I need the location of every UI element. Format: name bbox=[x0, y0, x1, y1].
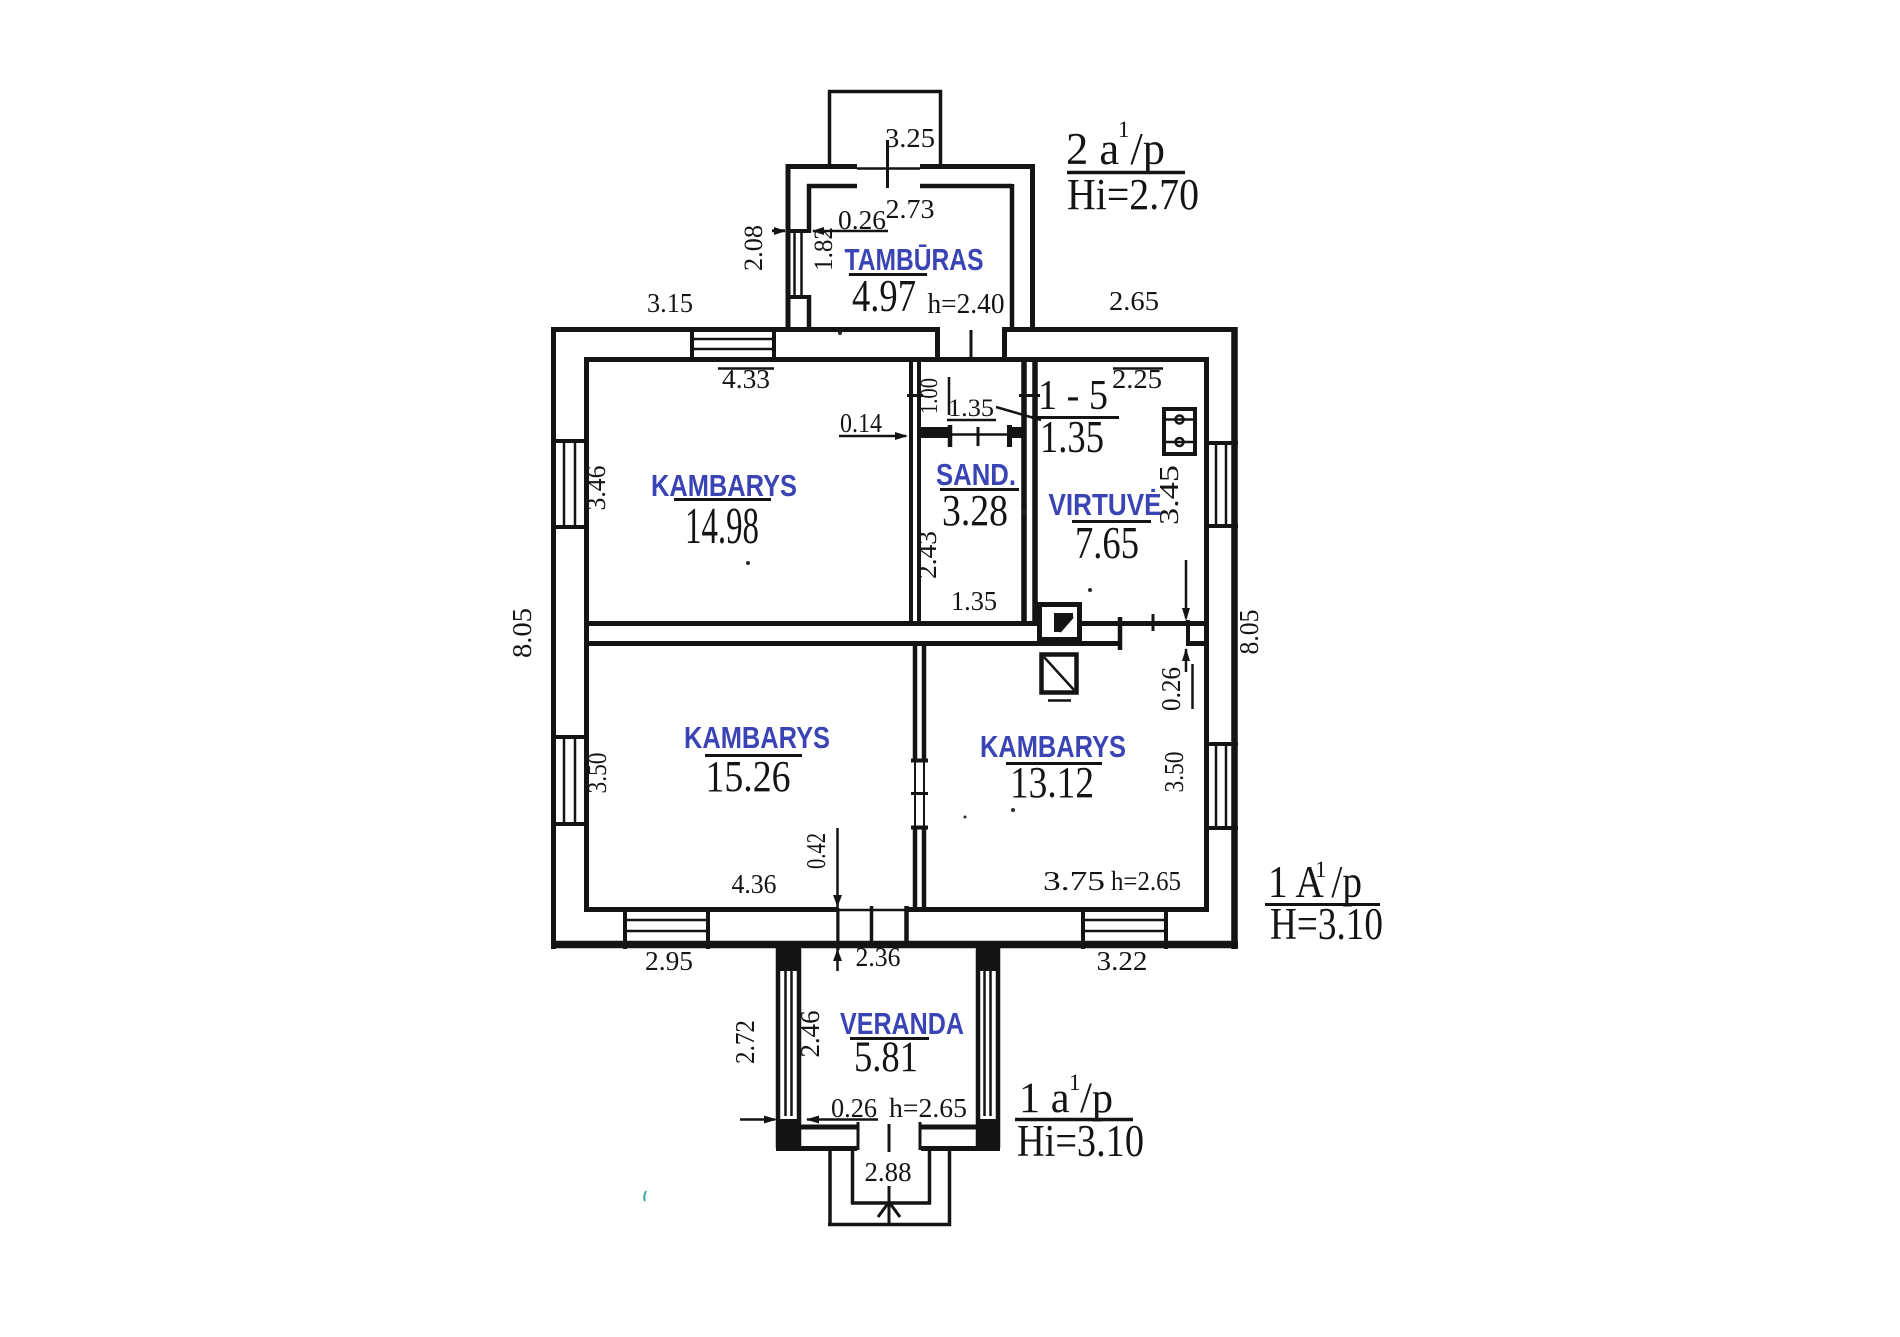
porch right wall bbox=[939, 90, 943, 164]
ventilation square room3 bbox=[1042, 655, 1077, 701]
svg-text:2.36: 2.36 bbox=[856, 942, 901, 972]
veranda bottom wall outer bbox=[776, 1146, 857, 1151]
PARTITION room2 | room3 (lower vertical) bbox=[913, 641, 918, 760]
underline 1.35 lobby + leader bbox=[947, 419, 996, 422]
svg-text:4.36: 4.36 bbox=[732, 869, 777, 899]
window W3 left wall lower bbox=[551, 735, 589, 739]
svg-text:1: 1 bbox=[1069, 1070, 1081, 1095]
veranda corner blocks bbox=[776, 944, 801, 971]
svg-text:1 a /p: 1 a /p bbox=[1019, 1075, 1113, 1122]
fraction line 1a/p bbox=[1015, 1118, 1133, 1122]
partition bottom line bbox=[586, 641, 1120, 646]
svg-text:3.50: 3.50 bbox=[1159, 752, 1189, 793]
veranda left wall outer bbox=[776, 943, 781, 1148]
svg-text:2.25: 2.25 bbox=[1112, 364, 1162, 394]
wall inner bottom left of door bbox=[584, 907, 838, 912]
SAND top wall with door bbox=[919, 427, 951, 438]
svg-text:7.65: 7.65 bbox=[1075, 518, 1139, 568]
svg-text:2.46: 2.46 bbox=[795, 1011, 825, 1058]
svg-text:h=2.40: h=2.40 bbox=[928, 289, 1005, 320]
STEPS bbox=[828, 1151, 832, 1226]
tick on upper partition bbox=[907, 394, 923, 397]
tambour inner right wall bbox=[1010, 184, 1015, 329]
svg-text:3.28: 3.28 bbox=[942, 486, 1008, 535]
window W6 bottom wall left bbox=[623, 908, 627, 949]
svg-text:4.33: 4.33 bbox=[722, 364, 770, 394]
svg-text:3.75: 3.75 bbox=[1043, 866, 1105, 896]
veranda door tick bbox=[888, 1124, 891, 1152]
sand door tick bbox=[977, 427, 980, 446]
fraction line 1A/p bbox=[1265, 903, 1380, 906]
porch top wall bbox=[828, 90, 942, 94]
veranda right wall outer bbox=[996, 943, 1001, 1148]
tambour outer top right segment bbox=[920, 164, 1035, 169]
overlines of small dims bbox=[718, 367, 774, 370]
wall outer left bbox=[551, 327, 556, 949]
window W7 bottom wall right bbox=[1081, 908, 1085, 949]
svg-text:3.25: 3.25 bbox=[885, 123, 935, 153]
svg-text:h=2.65: h=2.65 bbox=[889, 1093, 967, 1123]
entry arrow line bbox=[888, 1186, 891, 1224]
window W5 right wall lower bbox=[1204, 742, 1238, 746]
svg-text:VIRTUVĖ: VIRTUVĖ bbox=[1049, 487, 1162, 522]
svg-text:15.26: 15.26 bbox=[706, 752, 791, 801]
svg-text:3.22: 3.22 bbox=[1097, 946, 1148, 976]
svg-text:Hi=2.70: Hi=2.70 bbox=[1067, 170, 1199, 219]
dim 0.42 line bbox=[836, 828, 839, 971]
svg-text:3.50: 3.50 bbox=[582, 753, 612, 794]
svg-text:0.26: 0.26 bbox=[838, 205, 886, 235]
dim 0.14 arrow bbox=[839, 435, 906, 438]
svg-text:1.35: 1.35 bbox=[948, 395, 994, 422]
entry arrow head bbox=[878, 1202, 900, 1217]
svg-text:2.72: 2.72 bbox=[730, 1020, 760, 1064]
veranda bottom wall inner bbox=[797, 1125, 857, 1130]
wall outer right bbox=[1231, 327, 1238, 949]
svg-text:4.97: 4.97 bbox=[852, 271, 916, 321]
svg-text:2.08: 2.08 bbox=[739, 225, 768, 271]
dim 2.08 arrow bbox=[772, 229, 785, 232]
svg-text:0.26: 0.26 bbox=[1156, 667, 1186, 711]
window W8 tambour left wall bbox=[786, 229, 811, 233]
door threshold thin line bbox=[838, 909, 906, 912]
svg-text:H=3.10: H=3.10 bbox=[1270, 899, 1383, 949]
svg-text:Hi=3.10: Hi=3.10 bbox=[1017, 1116, 1144, 1166]
wall outer bottom bbox=[551, 941, 1238, 949]
svg-text:3.45: 3.45 bbox=[1154, 465, 1184, 525]
fraction line 2a/p bbox=[1067, 171, 1185, 175]
window W10 veranda right bbox=[983, 971, 986, 1116]
window W2 left wall upper bbox=[551, 439, 589, 443]
sand door jamb T right bbox=[1007, 425, 1012, 447]
svg-text:0.26: 0.26 bbox=[831, 1093, 877, 1123]
tambour inner left wall bbox=[807, 184, 812, 233]
wire bbox=[1003, 327, 1236, 332]
tambour door threshold bbox=[857, 167, 920, 170]
svg-text:13.12: 13.12 bbox=[1010, 758, 1094, 807]
door tick bbox=[970, 330, 973, 362]
svg-text:1.35: 1.35 bbox=[951, 586, 997, 616]
window W4 right wall upper bbox=[1204, 441, 1238, 445]
KITCHEN STOVE symbol bbox=[1164, 409, 1195, 454]
svg-text:3.15: 3.15 bbox=[647, 288, 693, 318]
PARTITION sand | kitchen (upper vertical) bbox=[1021, 357, 1027, 626]
veranda left wall inner bbox=[797, 949, 802, 1148]
dim line under 1.00 (lobby) bbox=[948, 377, 951, 415]
porch left wall bbox=[828, 90, 832, 164]
svg-text:KAMBARYS: KAMBARYS bbox=[684, 720, 830, 755]
wall outer top-left segment bbox=[551, 327, 938, 332]
fraction line 1-5 bbox=[1032, 416, 1119, 419]
svg-text:2.88: 2.88 bbox=[865, 1157, 912, 1187]
svg-text:2.73: 2.73 bbox=[886, 194, 935, 224]
VERANDA DOOR in main bottom wall bbox=[837, 908, 840, 950]
door jamb left bbox=[935, 327, 940, 362]
window W1 top wall bbox=[690, 327, 694, 362]
tambour outer right wall bbox=[1030, 164, 1035, 329]
svg-text:5.81: 5.81 bbox=[854, 1034, 918, 1081]
door jamb ticks kitchen-room3 bbox=[1118, 617, 1123, 650]
wall inner bottom right of door bbox=[906, 907, 1209, 912]
wall inner left bbox=[584, 357, 589, 912]
svg-text:1.82: 1.82 bbox=[809, 227, 838, 271]
svg-text:h=2.65: h=2.65 bbox=[1111, 866, 1181, 896]
window W9 veranda left bbox=[784, 971, 787, 1116]
svg-text:0.14: 0.14 bbox=[840, 408, 882, 438]
partition top line bbox=[586, 621, 1037, 626]
svg-text:2.43: 2.43 bbox=[912, 531, 942, 579]
svg-text:1: 1 bbox=[1118, 117, 1130, 142]
svg-text:2.95: 2.95 bbox=[645, 946, 693, 976]
sand door jamb T left bbox=[948, 425, 953, 447]
svg-text:3.46: 3.46 bbox=[581, 466, 611, 511]
wall inner top bbox=[584, 357, 1209, 362]
dim 0.26 veranda bbox=[740, 1118, 775, 1121]
dim 0.26 tambour wall bbox=[772, 230, 785, 233]
veranda right wall inner bbox=[976, 949, 981, 1148]
svg-text:1.35: 1.35 bbox=[1040, 412, 1104, 462]
tambour inner top bbox=[807, 184, 857, 189]
tambour door tick bbox=[886, 140, 889, 188]
svg-text:8.05: 8.05 bbox=[507, 608, 537, 658]
svg-text:1.00: 1.00 bbox=[916, 378, 943, 414]
scan specks bbox=[746, 561, 750, 565]
tick on kitchen partition bbox=[1019, 394, 1040, 397]
sand door threshold bbox=[951, 433, 1009, 436]
svg-text:2 a /p: 2 a /p bbox=[1066, 124, 1165, 174]
wall inner right bbox=[1204, 357, 1209, 912]
veranda door end caps bbox=[857, 1122, 860, 1150]
svg-text:14.98: 14.98 bbox=[685, 498, 759, 555]
svg-text:2.65: 2.65 bbox=[1109, 286, 1159, 316]
PARTITION room1 | lobby/sand (upper vertical) bbox=[909, 357, 913, 626]
tambour outer top left segment bbox=[786, 164, 857, 169]
label underlines (room names) bbox=[674, 498, 771, 501]
svg-text:8.05: 8.05 bbox=[1234, 610, 1264, 655]
dim 0.26 right (room3) bbox=[1185, 560, 1188, 618]
door jamb right bbox=[1002, 327, 1007, 362]
tambour outer left wall bbox=[786, 164, 791, 329]
svg-text:1: 1 bbox=[1315, 857, 1327, 882]
flue square on partition bbox=[1040, 605, 1080, 640]
door caps in partition bbox=[911, 759, 928, 763]
svg-text:0.42: 0.42 bbox=[801, 833, 831, 869]
